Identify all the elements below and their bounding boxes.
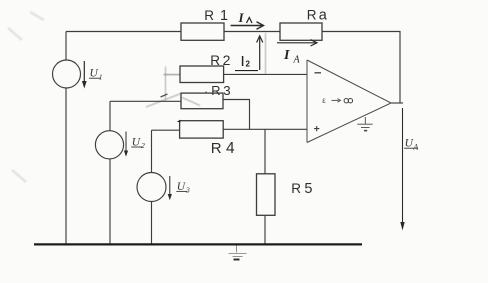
svg-text:5: 5 — [304, 181, 312, 197]
svg-text:3: 3 — [185, 186, 190, 195]
svg-text:2: 2 — [246, 60, 251, 69]
svg-text:A: A — [412, 143, 418, 152]
svg-text:R: R — [307, 8, 317, 23]
svg-text:R: R — [211, 140, 222, 157]
svg-text:a: a — [319, 8, 328, 24]
svg-text:1: 1 — [99, 72, 103, 81]
svg-text:1: 1 — [220, 8, 228, 24]
svg-text:R: R — [210, 53, 220, 68]
svg-text:A: A — [293, 55, 301, 66]
svg-text:I: I — [283, 48, 290, 63]
svg-text:R: R — [211, 83, 220, 98]
svg-text:U: U — [90, 68, 99, 80]
svg-text:R: R — [204, 8, 214, 23]
svg-text:2: 2 — [141, 141, 145, 150]
svg-text:3: 3 — [223, 83, 230, 98]
svg-text:2: 2 — [223, 52, 231, 68]
svg-text:R: R — [291, 181, 301, 196]
svg-text:ε: ε — [322, 96, 326, 105]
svg-text:I: I — [238, 10, 245, 25]
svg-text:4: 4 — [226, 140, 235, 157]
